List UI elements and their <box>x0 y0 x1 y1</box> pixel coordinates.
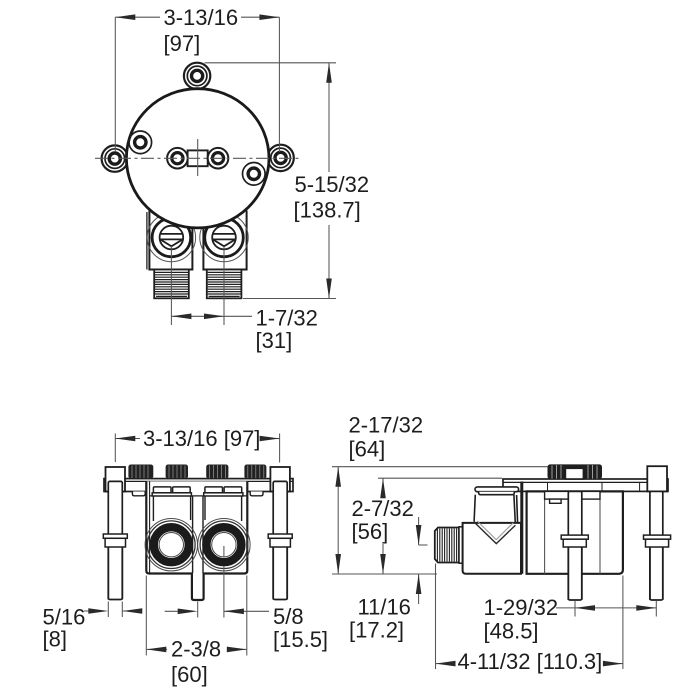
check valve left (front, behind body circle) <box>147 210 196 270</box>
mounting ear boss right <box>267 145 293 171</box>
cartridge step under plate (side) <box>545 491 600 503</box>
dimension 11/16 [17.2] side view <box>419 517 428 604</box>
front leg (side) <box>561 491 588 600</box>
dimension 1-7/32 [31] top view <box>171 246 252 325</box>
port circle left (front) <box>145 519 197 571</box>
svg-text:[17.2]: [17.2] <box>349 618 404 643</box>
svg-text:[15.5]: [15.5] <box>273 627 328 652</box>
rear leg (side) <box>644 491 671 600</box>
mounting plate (side) <box>503 479 668 491</box>
inner hole lower-right <box>243 163 266 186</box>
rear leg top cap (side) <box>647 466 667 491</box>
svg-text:5-15/32: 5-15/32 <box>295 172 370 197</box>
elbow chamfer V inner <box>477 521 513 540</box>
svg-text:1-29/32: 1-29/32 <box>484 595 559 620</box>
inner hole upper-left <box>129 131 152 154</box>
knurled cap (side) <box>548 464 603 479</box>
mounting plate front <box>104 479 293 492</box>
lug under cap4 <box>250 492 263 496</box>
horizontal dash-dot centerline <box>95 157 301 159</box>
vertical crosshair centerline <box>197 139 199 176</box>
center port bracket <box>188 150 208 166</box>
svg-text:2-7/32: 2-7/32 <box>352 496 414 521</box>
svg-text:[56]: [56] <box>352 519 389 544</box>
knurled cap 4 <box>244 465 266 479</box>
svg-text:[97]: [97] <box>164 31 201 56</box>
svg-text:11/16: 11/16 <box>358 595 411 620</box>
dimension 2-3/8 [60] front view <box>146 576 247 656</box>
right mounting leg <box>268 467 292 600</box>
svg-text:2-3/8: 2-3/8 <box>171 637 221 662</box>
valve body front <box>146 481 247 600</box>
valve body circle <box>126 89 269 228</box>
mounting ear boss top <box>184 63 210 89</box>
slot nut strips under plate (left) <box>152 487 191 496</box>
dimension 2-17/32 [64] side view <box>332 467 548 574</box>
dimension 5-15/32 [138.7] top view <box>205 63 336 299</box>
knurled cap 2 <box>166 465 188 479</box>
center port left <box>167 148 188 169</box>
knurled cap 1 <box>128 465 153 479</box>
elbow vertical barrel <box>474 495 517 523</box>
mounting ear boss left <box>102 145 128 171</box>
check valve left screw slot <box>160 226 184 250</box>
ear right rings <box>271 148 291 168</box>
svg-text:1-7/32: 1-7/32 <box>256 306 318 331</box>
ear left rings <box>105 149 125 169</box>
dimension 1-29/32 [48.5] side view <box>556 601 656 617</box>
elbow chamfer V outer <box>474 522 516 544</box>
knurled cap 3 <box>206 465 228 479</box>
lug under cap1 <box>132 492 145 496</box>
svg-text:2-17/32: 2-17/32 <box>349 413 424 438</box>
port circle right (front) <box>198 519 250 571</box>
dimension 2-7/32 [56] side view <box>378 478 502 574</box>
nipple flange <box>459 527 463 563</box>
ear top rings <box>187 66 207 86</box>
svg-text:[8]: [8] <box>43 626 67 651</box>
dimension 5/8 [15.5] front view <box>165 546 269 618</box>
svg-text:[60]: [60] <box>171 662 208 687</box>
elbow top flange oval <box>475 487 519 495</box>
svg-text:[48.5]: [48.5] <box>484 619 539 644</box>
svg-text:[31]: [31] <box>256 328 293 353</box>
center port right <box>208 148 229 169</box>
svg-text:3-13/16 [97]: 3-13/16 [97] <box>143 426 260 451</box>
svg-text:3-13/16: 3-13/16 <box>164 5 239 30</box>
check valve left threaded nipple <box>154 270 189 299</box>
svg-text:[138.7]: [138.7] <box>294 197 361 222</box>
slot nut strips under plate (right) <box>204 487 243 496</box>
check valve right threaded nipple <box>207 270 242 299</box>
svg-text:4-11/32 [110.3]: 4-11/32 [110.3] <box>458 649 603 674</box>
threaded nipple (side) <box>435 528 459 563</box>
dimension 3-13/16 [97] top view <box>115 17 279 152</box>
dimension 3-13/16 [97] front view <box>115 434 279 463</box>
valve body (side) <box>522 482 623 574</box>
svg-text:5/8: 5/8 <box>273 604 304 629</box>
check valve right screw slot <box>212 226 236 250</box>
dimension 5/16 [8] front view <box>84 602 140 618</box>
check valve right (front, behind body circle) <box>200 211 248 270</box>
dimension 4-11/32 [110.3] side view <box>436 564 623 670</box>
svg-text:[64]: [64] <box>349 436 386 461</box>
elbow horizontal barrel <box>463 523 521 574</box>
left mounting leg <box>103 467 127 600</box>
